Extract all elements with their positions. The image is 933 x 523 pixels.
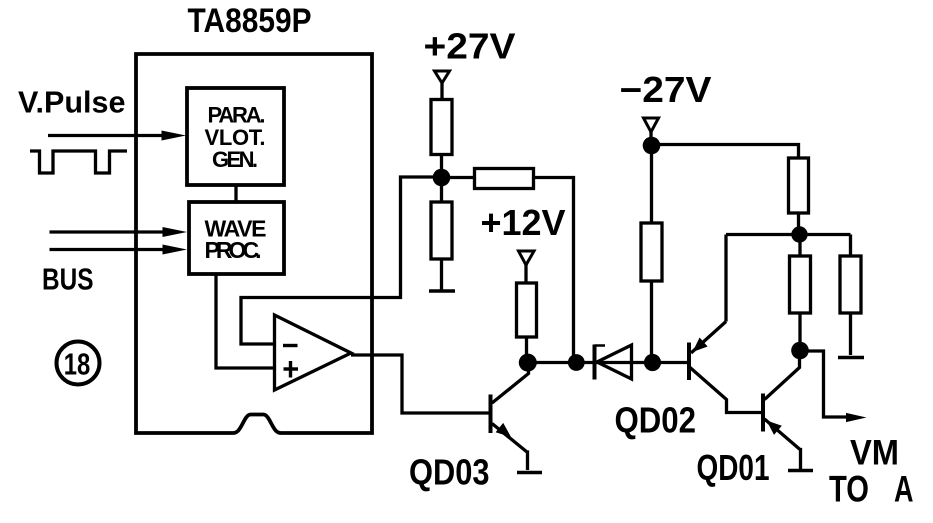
svg-text:−27V: −27V — [620, 69, 712, 110]
svg-text:PARA.: PARA. — [208, 103, 266, 128]
arrowhead QD02 emitter — [693, 338, 708, 353]
svg-text:A: A — [894, 469, 914, 510]
svg-text:18: 18 — [64, 347, 91, 382]
resistor R7 (node F to node G) — [790, 256, 811, 313]
svg-text:QD01: QD01 — [697, 447, 770, 488]
arrowhead VM output — [846, 413, 867, 422]
wire -27V arrow to node E — [649, 132, 652, 141]
transistor QD01 emitter — [765, 419, 801, 469]
wire feedback from node A to op-amp minus input — [241, 177, 441, 344]
terminal arrow +12V — [519, 251, 535, 265]
node F — [791, 226, 807, 242]
wire rail at node F — [726, 233, 851, 236]
svg-text:PROC.: PROC. — [205, 237, 262, 263]
resistor R8 (far right) — [840, 256, 861, 313]
block WAVE PROC. — [189, 202, 284, 274]
wire R6 to node F — [797, 213, 800, 230]
block PARA. VLOT. GEN. — [187, 88, 284, 185]
transistor QD01 collector — [765, 356, 800, 400]
resistor R4 (+12V) — [517, 283, 537, 337]
resistor R6 (top right) — [789, 158, 809, 213]
wire between PARA and WAVE blocks — [234, 185, 237, 202]
op-amp plus sign — [284, 361, 299, 378]
svg-text:V.Pulse: V.Pulse — [18, 85, 126, 120]
wire BUS line 2 — [50, 248, 169, 251]
transistor QD03 collector — [492, 363, 529, 403]
svg-text:GEN.: GEN. — [212, 147, 258, 172]
arrowhead BUS line 1 — [163, 227, 188, 237]
resistor R1 (+27V top) — [431, 100, 452, 155]
waveform V pulse symbol — [30, 151, 127, 173]
terminal arrow -27V — [644, 118, 659, 132]
node E — [643, 137, 661, 155]
node C — [568, 354, 585, 371]
label WAVE PROC. — [205, 216, 267, 264]
arrowhead V.Pulse into PARA — [162, 131, 187, 141]
svg-text:TA8859P: TA8859P — [188, 2, 312, 40]
diode D1 cathode tick — [595, 344, 606, 347]
wire node G to VM output arrow — [800, 351, 846, 417]
svg-text:TO: TO — [829, 469, 869, 510]
wire rail to resistor R8 — [849, 235, 852, 257]
wire +27V to resistor R1 — [440, 83, 443, 100]
terminal arrow +27V — [435, 71, 450, 83]
wire op-amp output to QD03 base — [351, 355, 489, 413]
svg-text:BUS: BUS — [42, 262, 94, 297]
node D — [644, 354, 661, 371]
ground QD01 — [788, 469, 813, 473]
IC U1 TA8859P outline — [136, 54, 372, 433]
wire V.Pulse input — [48, 134, 168, 137]
wire node E to resistor R5 — [650, 150, 653, 223]
arrowhead QD01 emitter — [767, 421, 782, 435]
svg-text:+12V: +12V — [481, 202, 566, 243]
op-amp U1a — [275, 315, 352, 390]
svg-text:VM: VM — [850, 434, 899, 473]
op-amp minus sign — [283, 344, 298, 347]
transistor QD03 emitter — [492, 424, 528, 471]
wire R2 to terminal — [440, 259, 443, 290]
wire node E to resistor R6 — [656, 145, 799, 161]
transistor QD03 base bar — [489, 395, 493, 434]
label PARA. VLOT. GEN. — [205, 103, 266, 173]
resistor R5 (-27V branch) — [641, 223, 662, 281]
wire R3 to node C — [534, 178, 574, 359]
resistor R2 (below node A) — [431, 202, 452, 259]
ground QD03 — [517, 471, 542, 475]
wire BUS line 1 — [50, 230, 169, 233]
arrowhead BUS line 2 — [163, 245, 188, 255]
node B — [519, 354, 537, 372]
wire R5 to node D — [650, 281, 653, 358]
transistor QD02 collector — [690, 368, 762, 413]
terminal bar below R8 — [838, 356, 864, 360]
wire node F rail to QD02 emitter — [724, 235, 727, 322]
wire node A to resistor R3 — [446, 176, 475, 179]
transistor QD02 emitter — [691, 322, 726, 354]
terminal bar below R2 — [429, 289, 455, 293]
wire R1 to node A — [440, 155, 443, 173]
wire main rail node B to QD02 base — [528, 361, 688, 364]
svg-text:QD03: QD03 — [409, 452, 490, 493]
wire R7 to node G — [798, 313, 801, 345]
wire +12V to resistor R4 — [524, 265, 527, 284]
wire R4 to node B — [525, 337, 528, 358]
svg-text:+27V: +27V — [424, 26, 516, 67]
wire node F to resistor R7 — [798, 238, 801, 256]
transistor QD01 base bar — [761, 394, 765, 432]
diode D1 triangle — [597, 345, 632, 379]
transistor QD02 base bar — [687, 343, 691, 381]
svg-text:QD02: QD02 — [615, 400, 697, 441]
wire node A to resistor R2 — [440, 181, 443, 202]
diode D1 cathode bar — [593, 345, 597, 380]
resistor R3 (horizontal) — [475, 169, 534, 189]
arrowhead QD03 emitter — [496, 423, 511, 437]
pin number 18 circled — [57, 342, 100, 385]
wire R8 to terminal — [849, 313, 852, 355]
node A — [433, 169, 451, 187]
node G — [791, 342, 809, 360]
wire WAVE PROC to op-amp plus input — [216, 274, 275, 368]
